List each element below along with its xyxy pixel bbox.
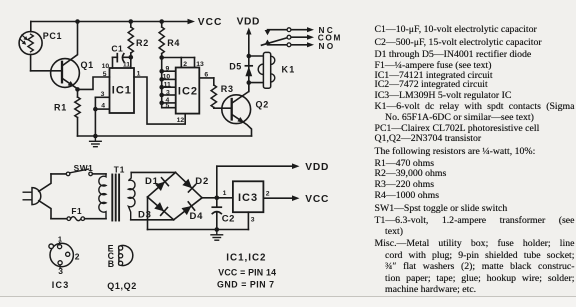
svg-text:K1: K1 [282,65,296,75]
svg-text:C1: C1 [111,44,123,54]
svg-text:R1: R1 [54,103,67,113]
svg-text:2: 2 [266,190,270,197]
svg-text:3: 3 [101,91,105,98]
svg-text:R4: R4 [167,38,180,48]
svg-text:IC1,IC2: IC1,IC2 [226,253,266,264]
svg-text:1: 1 [137,70,141,77]
svg-text:D5: D5 [229,62,242,72]
svg-text:VCC: VCC [198,17,223,28]
svg-text:12: 12 [177,117,185,124]
svg-text:Q2: Q2 [256,100,270,110]
svg-text:3: 3 [251,216,255,223]
svg-text:VDD: VDD [305,162,329,173]
svg-text:Q1: Q1 [81,60,94,70]
svg-text:11: 11 [164,82,171,89]
svg-text:NO: NO [319,41,336,51]
svg-text:C2: C2 [222,214,235,225]
svg-text:IC3: IC3 [52,280,70,290]
svg-text:SW1: SW1 [74,163,94,173]
svg-text:11: 11 [123,62,130,69]
svg-text:10: 10 [163,74,171,81]
svg-text:5: 5 [166,103,170,110]
svg-text:VCC: VCC [305,194,329,205]
svg-text:2: 2 [75,252,80,262]
svg-text:VDD: VDD [237,16,260,27]
svg-text:R3: R3 [221,84,234,94]
svg-text:T1: T1 [114,165,126,175]
svg-text:3: 3 [58,266,63,276]
svg-text:IC3: IC3 [238,192,258,204]
svg-text:3: 3 [166,89,170,96]
svg-text:B: B [108,259,114,269]
svg-text:GND = PIN 7: GND = PIN 7 [217,280,275,290]
svg-text:1: 1 [58,235,62,244]
svg-text:D4: D4 [190,211,204,222]
svg-text:IC2: IC2 [178,86,198,98]
svg-text:VCC = PIN 14: VCC = PIN 14 [218,267,276,277]
svg-text:5: 5 [103,71,107,78]
svg-text:D3: D3 [138,210,152,221]
svg-text:Q1,Q2: Q1,Q2 [107,281,137,291]
svg-text:D1: D1 [145,176,159,187]
svg-text:D2: D2 [195,176,209,187]
svg-text:10: 10 [102,63,110,70]
svg-text:4: 4 [101,103,105,110]
svg-text:9: 9 [166,66,170,73]
svg-text:R2: R2 [136,38,149,48]
svg-text:6: 6 [204,72,208,79]
svg-text:1: 1 [223,190,227,197]
svg-text:F1: F1 [71,206,82,216]
svg-text:PC1: PC1 [43,31,62,41]
svg-text:IC1: IC1 [112,84,132,96]
